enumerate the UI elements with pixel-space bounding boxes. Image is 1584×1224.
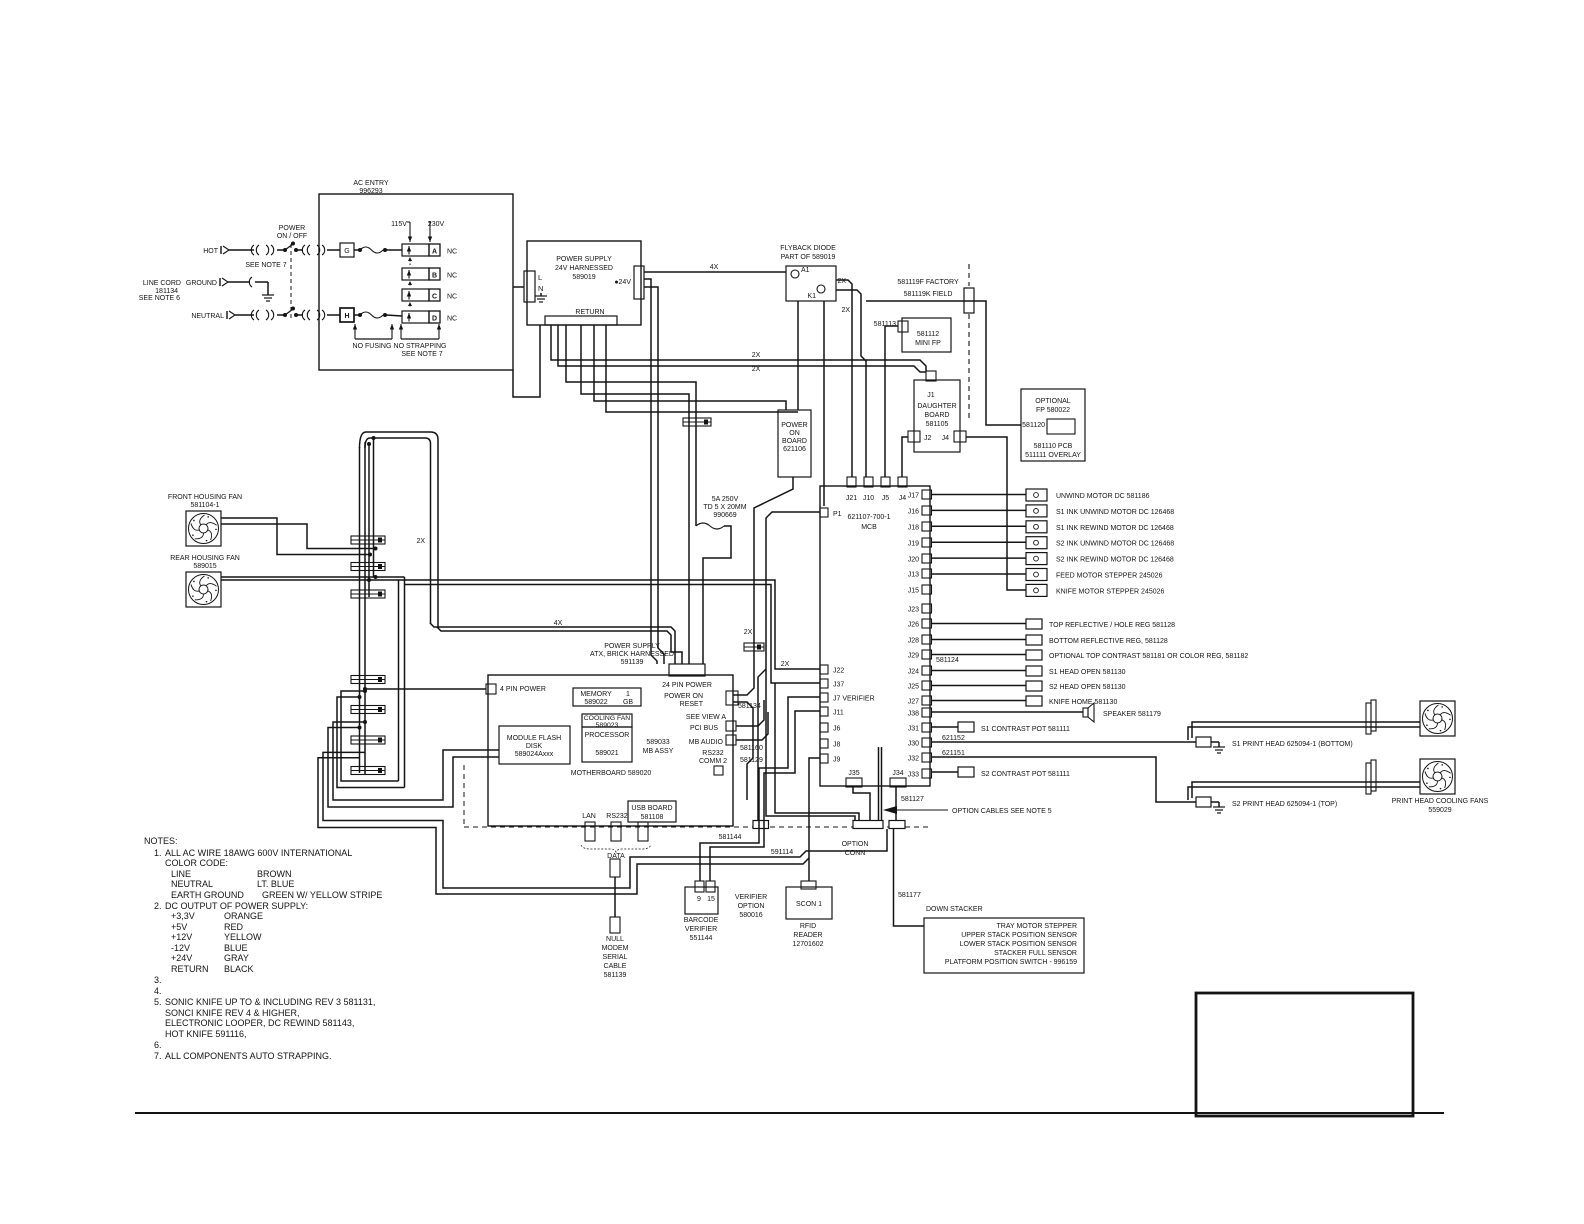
SCON 1 box <box>786 887 832 919</box>
dashed option boundary vertical <box>463 765 465 827</box>
module flash disk 589024Axxx <box>499 726 570 764</box>
fuse element H <box>354 314 359 316</box>
svg-text:J16: J16 <box>908 509 919 516</box>
daughter board 581105 <box>914 380 960 452</box>
connector pair hot-2 <box>302 245 305 255</box>
wire daughter J2 to MCB J4 <box>902 437 908 477</box>
svg-text:PLATFORM POSITION SWITCH - 996: PLATFORM POSITION SWITCH - 996159 <box>945 959 1077 966</box>
svg-text:6.: 6. <box>154 1040 162 1050</box>
svg-text:ON / OFF: ON / OFF <box>277 233 307 240</box>
fuse holder H <box>340 308 354 322</box>
null modem inline connector A <box>610 859 620 877</box>
svg-text:1: 1 <box>626 691 630 698</box>
wire PCI BUS <box>736 700 764 726</box>
svg-text:S1 CONTRAST POT 581111: S1 CONTRAST POT 581111 <box>981 726 1070 733</box>
svg-text:OPTIONAL TOP CONTRAST 581181 O: OPTIONAL TOP CONTRAST 581181 OR COLOR RE… <box>1049 653 1248 660</box>
svg-text:ATX, BRICK HARNESSED: ATX, BRICK HARNESSED <box>590 651 674 658</box>
wire JS1 motor row 1 <box>931 509 1026 511</box>
svg-text:RED: RED <box>224 922 244 932</box>
svg-text:LT. BLUE: LT. BLUE <box>257 879 294 889</box>
wire pair S2 print head to fan <box>1192 782 1420 798</box>
RS232 COMM2 connector <box>714 766 723 775</box>
svg-text:551144: 551144 <box>690 935 713 942</box>
svg-text:NO FUSING: NO FUSING <box>353 343 392 350</box>
wire sensor row <box>931 670 1026 672</box>
svg-text:ORANGE: ORANGE <box>224 911 263 921</box>
svg-text:REAR HOUSING FAN: REAR HOUSING FAN <box>170 555 240 562</box>
svg-text:J5: J5 <box>882 495 890 502</box>
svg-text:J8: J8 <box>833 742 841 749</box>
MCB left connector J9 <box>820 754 828 763</box>
svg-text:7.: 7. <box>154 1051 162 1061</box>
MCB right connector J26 <box>922 619 932 628</box>
flyback terminal K1 <box>817 285 825 293</box>
svg-text:ALL COMPONENTS AUTO STRAPPING.: ALL COMPONENTS AUTO STRAPPING. <box>165 1051 332 1061</box>
svg-text:2X: 2X <box>781 661 790 668</box>
wire daughter J4 to knife motor <box>966 437 1026 590</box>
svg-text:581124: 581124 <box>936 657 959 664</box>
svg-text:2X: 2X <box>416 538 425 545</box>
svg-text:SONIC KNIFE UP TO & INCLUDING: SONIC KNIFE UP TO & INCLUDING REV 3 5811… <box>165 997 375 1007</box>
RS232 connector <box>611 822 621 841</box>
sensor connector: OPTIONAL TOP CONTRAST 581181 OR COLOR REG, 581182 <box>1026 650 1042 660</box>
wire return 6 to power on board <box>606 325 798 412</box>
MCB bottom connector J34 <box>890 778 906 787</box>
svg-text:POWER SUPPLY: POWER SUPPLY <box>604 643 660 650</box>
PSU output connector 24V <box>634 266 644 299</box>
svg-text:581127: 581127 <box>901 796 924 803</box>
svg-text:POWER: POWER <box>279 225 305 232</box>
svg-text:NULL: NULL <box>606 936 624 943</box>
wire to strap D <box>386 315 402 316</box>
svg-text:J25: J25 <box>908 684 919 691</box>
MCB top connector J21 <box>847 477 856 487</box>
MCB bottom connector J35 <box>846 778 862 787</box>
power on board 621106 <box>778 410 811 477</box>
svg-text:J1: J1 <box>927 392 935 399</box>
bundle top turn inner <box>365 438 431 624</box>
null modem cable wire <box>614 877 616 917</box>
wire sensor row <box>931 700 1026 702</box>
svg-text:KNIFE MOTOR STEPPER 245026: KNIFE MOTOR STEPPER 245026 <box>1056 588 1165 595</box>
svg-text:POWER: POWER <box>781 422 807 429</box>
svg-text:2X: 2X <box>841 307 850 314</box>
null modem inline connector B <box>610 917 620 933</box>
svg-text:996293: 996293 <box>359 188 382 195</box>
svg-text:581112: 581112 <box>917 331 939 338</box>
daughter connector J2 <box>908 431 920 442</box>
ground symbol AC <box>267 282 269 295</box>
MCB right connector J29 <box>922 650 932 659</box>
svg-text:FLYBACK DIODE: FLYBACK DIODE <box>780 245 836 252</box>
4 pin power connector <box>486 684 496 694</box>
wire bundle nest to riser J22 <box>341 691 399 781</box>
ferrite on fuse pair <box>683 418 711 426</box>
wire ground lead <box>228 281 250 283</box>
svg-text:J34: J34 <box>892 770 903 777</box>
wire K1 branch to 581120 <box>866 301 1021 425</box>
svg-text:581129: 581129 <box>740 757 763 764</box>
MCB left connector J6 <box>820 723 828 732</box>
svg-text:OPTION CABLES SEE NOTE 5: OPTION CABLES SEE NOTE 5 <box>952 808 1052 815</box>
svg-text:HOT KNIFE 591116,: HOT KNIFE 591116, <box>165 1029 247 1039</box>
voltage strap row C <box>402 289 429 301</box>
svg-text:SEE NOTE 7: SEE NOTE 7 <box>401 351 442 358</box>
S2 contrast pot 581111 <box>958 767 974 777</box>
mini FP connector <box>898 321 908 332</box>
wire bundle branch down to 591114 run <box>323 752 887 888</box>
wire mini FP to J5 <box>885 326 898 477</box>
svg-text:S2 CONTRAST POT 581111: S2 CONTRAST POT 581111 <box>981 771 1070 778</box>
switch contact neutral <box>283 313 287 317</box>
MB AUDIO connector <box>726 735 736 745</box>
MCB right connector J23 <box>922 604 932 613</box>
MCB left connector J7 <box>820 693 828 702</box>
MCB right connector J17 <box>922 490 932 499</box>
ferrite on bundle <box>351 706 385 714</box>
ferrite on bundle <box>351 536 385 544</box>
svg-text:MODULE FLASH: MODULE FLASH <box>507 735 561 742</box>
MCB left connector J22 <box>820 665 828 674</box>
svg-text:4.: 4. <box>154 986 162 996</box>
option flat connector J34 <box>889 821 905 829</box>
svg-text:581108: 581108 <box>641 814 664 821</box>
wire return 1 to J1 2X <box>551 325 926 371</box>
S1 print head ground <box>1211 741 1219 743</box>
svg-text:S1 INK REWIND MOTOR DC 126468: S1 INK REWIND MOTOR DC 126468 <box>1056 525 1174 532</box>
svg-text:PCI BUS: PCI BUS <box>690 725 718 732</box>
svg-text:NEUTRAL: NEUTRAL <box>171 879 213 889</box>
option flat connector J35 <box>853 821 883 829</box>
svg-text:TD 5 X 20MM: TD 5 X 20MM <box>703 504 746 511</box>
svg-text:581120: 581120 <box>1022 422 1045 429</box>
riser J37 vertical and branch <box>404 577 406 788</box>
connector pair neutral-2 <box>302 310 305 320</box>
wire pair into option connector <box>878 747 880 820</box>
wire J34 to option connector <box>895 787 897 820</box>
svg-text:TOP REFLECTIVE / HOLE REG 581: TOP REFLECTIVE / HOLE REG 581128 <box>1049 622 1175 629</box>
svg-text:J2: J2 <box>924 435 932 442</box>
svg-text:4 PIN POWER: 4 PIN POWER <box>500 686 546 693</box>
MCB left connector J11 <box>820 707 828 716</box>
svg-text:HOT: HOT <box>203 248 219 255</box>
svg-text:J30: J30 <box>908 741 919 748</box>
sensor connector: BOTTOM REFLECTIVE REG, 581128 <box>1026 635 1042 645</box>
svg-text:COOLING FAN: COOLING FAN <box>584 715 631 722</box>
ferrite on bundle <box>351 563 385 571</box>
motor connector: S1 INK REWIND MOTOR DC 126468 <box>1026 521 1047 533</box>
svg-text:SEE NOTE 6: SEE NOTE 6 <box>139 295 180 302</box>
svg-text:BOTTOM REFLECTIVE REG, 581128: BOTTOM REFLECTIVE REG, 581128 <box>1049 638 1168 645</box>
svg-text:J17: J17 <box>908 493 919 500</box>
svg-text:ELECTRONIC LOOPER, DC REWIND 5: ELECTRONIC LOOPER, DC REWIND 581143, <box>165 1018 354 1028</box>
svg-text:591114: 591114 <box>771 849 793 856</box>
svg-text:A: A <box>432 249 437 256</box>
svg-text:J15: J15 <box>908 588 919 595</box>
svg-text:P1: P1 <box>833 511 842 518</box>
riser J22 vertical and branch <box>399 580 821 781</box>
svg-text:FRONT HOUSING FAN: FRONT HOUSING FAN <box>168 494 242 501</box>
svg-text:589019: 589019 <box>572 274 595 281</box>
memory 589022 <box>573 688 641 706</box>
wire hot to fuse G <box>327 249 340 251</box>
wire flyback to power on board <box>797 301 799 410</box>
svg-text:J32: J32 <box>908 756 919 763</box>
rear housing fan <box>186 572 221 607</box>
MCB right connector J27 <box>922 696 932 705</box>
wire JS2 motor row 4 <box>931 557 1026 559</box>
MCB right connector J20 <box>922 554 932 563</box>
fuse element G <box>354 249 359 251</box>
wire J11 to barcode pin15 <box>710 711 820 881</box>
ferrite on bundle <box>351 767 385 775</box>
wire P1 drop from flyback <box>823 301 825 506</box>
connector pair hot-1 <box>251 245 254 255</box>
wire J7 verifier to barcode pin9 <box>700 697 820 881</box>
main control board MCB 621107-700-1 <box>820 486 930 786</box>
voltage strap row D <box>402 311 429 323</box>
svg-text:RS232: RS232 <box>702 750 724 757</box>
svg-text:NO STRAPPING: NO STRAPPING <box>394 343 447 350</box>
component 581119 sleeve <box>964 288 974 313</box>
ferrite on S1 fan wires <box>1366 703 1371 734</box>
DATA brace <box>581 845 651 852</box>
barcode verifier 551144 <box>685 887 718 914</box>
USB connector <box>638 822 648 841</box>
svg-text:●24V: ●24V <box>614 279 631 286</box>
svg-text:COLOR CODE:: COLOR CODE: <box>165 858 228 868</box>
SCON top connector <box>801 881 816 889</box>
svg-text:LINE CORD: LINE CORD <box>143 280 181 287</box>
MCB right connector J18 <box>922 522 932 531</box>
svg-text:J38: J38 <box>908 711 919 718</box>
MCB right connector J32 <box>922 753 932 762</box>
MCB right connector J28 <box>922 635 932 644</box>
wire AC box bottom to PSU return path <box>513 325 540 397</box>
svg-text:581119F FACTORY: 581119F FACTORY <box>897 279 959 286</box>
barcode pin 15 <box>706 881 715 892</box>
svg-text:EARTH GROUND: EARTH GROUND <box>171 890 244 900</box>
PSU input connector <box>524 271 535 302</box>
MCB top connector J5 <box>881 477 890 487</box>
voltage strap row B <box>402 268 429 280</box>
svg-text:5.: 5. <box>154 997 162 1007</box>
flyback terminal A1 <box>791 270 799 278</box>
svg-text:2X: 2X <box>752 366 761 373</box>
bundle top turn outer <box>360 432 439 628</box>
svg-text:559029: 559029 <box>1428 807 1451 814</box>
svg-text:RFID: RFID <box>800 923 816 930</box>
svg-text:GB: GB <box>623 699 633 706</box>
svg-text:621152: 621152 <box>942 735 965 742</box>
motor connector: S2 INK REWIND MOTOR DC 126468 <box>1026 553 1047 565</box>
svg-text:511111 OVERLAY: 511111 OVERLAY <box>1025 452 1081 459</box>
motor connector: KNIFE MOTOR STEPPER 245026 <box>1026 584 1047 596</box>
svg-text:589022: 589022 <box>584 699 607 706</box>
svg-text:KNIFE HOME 581130: KNIFE HOME 581130 <box>1049 699 1117 706</box>
ferrite on S2 fan wires <box>1366 763 1371 794</box>
motor connector: UNWIND MOTOR DC 581186 <box>1026 489 1047 501</box>
dashed option boundary horizontal <box>464 826 928 828</box>
processor 589021 <box>582 727 632 762</box>
svg-text:J9: J9 <box>833 757 841 764</box>
svg-text:NOTES:: NOTES: <box>144 836 178 846</box>
MCB top connector J10 <box>864 477 873 487</box>
svg-text:581105: 581105 <box>926 421 949 428</box>
svg-text:581134: 581134 <box>738 703 761 710</box>
svg-text:S1 PRINT HEAD 625094-1 (BOTTO: S1 PRINT HEAD 625094-1 (BOTTOM) <box>1232 741 1353 748</box>
wire front fan A to bundle <box>221 518 370 555</box>
svg-text:ON: ON <box>789 430 800 437</box>
svg-text:TRAY MOTOR STEPPER: TRAY MOTOR STEPPER <box>996 923 1077 930</box>
voltage strap row A <box>402 244 429 256</box>
wire sensor row <box>931 685 1026 687</box>
svg-text:LOWER STACK POSITION SENSOR: LOWER STACK POSITION SENSOR <box>960 941 1077 948</box>
connector pair neutral-1 <box>251 310 254 320</box>
svg-text:J11: J11 <box>833 710 844 717</box>
svg-text:BROWN: BROWN <box>257 869 292 879</box>
bottom rule line <box>135 1112 1444 1114</box>
svg-text:SEE VIEW A: SEE VIEW A <box>686 714 726 721</box>
svg-text:NC: NC <box>447 273 457 280</box>
S2 print head connector <box>1196 797 1211 807</box>
wire return 3 fuse feed <box>566 325 696 520</box>
svg-text:J4: J4 <box>942 435 950 442</box>
svg-text:591139: 591139 <box>621 659 644 666</box>
svg-text:+12V: +12V <box>171 932 192 942</box>
svg-text:DOWN STACKER: DOWN STACKER <box>926 906 983 913</box>
svg-text:581160: 581160 <box>740 745 763 752</box>
AC entry enclosure box 996293 <box>319 194 513 370</box>
svg-text:J21: J21 <box>846 495 857 502</box>
svg-text:STACKER FULL SENSOR: STACKER FULL SENSOR <box>994 950 1077 957</box>
daughter connector J4 <box>954 431 966 442</box>
svg-text:SONCI KNIFE REV 4 & HIGHER,: SONCI KNIFE REV 4 & HIGHER, <box>165 1008 300 1018</box>
svg-text:OPTION: OPTION <box>842 841 869 848</box>
svg-text:L: L <box>538 273 542 282</box>
svg-text:RS232: RS232 <box>606 813 628 820</box>
fuse holder G <box>340 243 354 257</box>
svg-text:S2 PRINT HEAD 625094-1 (TOP): S2 PRINT HEAD 625094-1 (TOP) <box>1232 801 1337 808</box>
wire sensor row <box>931 654 1026 656</box>
power supply 24V harnessed 589019 <box>527 241 641 325</box>
power on reset connector <box>726 691 738 705</box>
svg-text:LINE: LINE <box>171 869 191 879</box>
svg-text:J23: J23 <box>908 607 919 614</box>
wire sensor row <box>931 623 1026 625</box>
sensor connector: KNIFE HOME 581130 <box>1026 696 1042 706</box>
svg-text:MODEM: MODEM <box>602 945 629 952</box>
wire to strap A <box>386 249 402 251</box>
PCI BUS connector <box>726 721 736 731</box>
S2 print head ground <box>1211 801 1219 803</box>
svg-text:-12V: -12V <box>171 943 190 953</box>
svg-text:VERIFIER: VERIFIER <box>735 894 767 901</box>
svg-text:589024Axxx: 589024Axxx <box>515 751 554 758</box>
title block box <box>1196 993 1413 1116</box>
wire bundle nest to riser J37 <box>337 697 405 788</box>
svg-text:+3,3V: +3,3V <box>171 911 195 921</box>
wire bundle to flash disk B <box>328 728 499 808</box>
svg-text:J19: J19 <box>908 541 919 548</box>
svg-text:1.: 1. <box>154 848 162 858</box>
svg-text:581104-1: 581104-1 <box>190 502 219 509</box>
24 pin power connector <box>669 664 705 676</box>
sensor connector: S1 HEAD OPEN 581130 <box>1026 666 1042 676</box>
wire sensor row <box>931 639 1026 641</box>
svg-text:24 PIN POWER: 24 PIN POWER <box>662 682 712 689</box>
MCB right connector J30 <box>922 738 932 747</box>
svg-text:4X: 4X <box>710 264 719 271</box>
wire return 4 <box>581 325 689 664</box>
wire bundle vertical 1 <box>359 447 361 773</box>
svg-text:S1 HEAD OPEN 581130: S1 HEAD OPEN 581130 <box>1049 669 1126 676</box>
optional FP board 580022 <box>1021 389 1085 461</box>
wire J35 to option connector <box>853 787 870 820</box>
S1 contrast pot 581111 <box>958 722 974 732</box>
wire rear fan A to riser <box>221 576 405 578</box>
svg-text:990669: 990669 <box>713 512 736 519</box>
optional FP connector <box>1047 419 1075 434</box>
wire neutral to fuse H <box>327 314 340 316</box>
PSU return connector strip <box>545 316 617 325</box>
svg-text:BARCODE: BARCODE <box>684 917 719 924</box>
svg-text:J33: J33 <box>908 772 919 779</box>
svg-text:NEUTRAL: NEUTRAL <box>191 313 224 320</box>
svg-text:AC ENTRY: AC ENTRY <box>353 180 389 187</box>
MCB left connector J8 <box>820 739 828 748</box>
svg-text:S2 INK REWIND MOTOR DC 126468: S2 INK REWIND MOTOR DC 126468 <box>1056 557 1174 564</box>
USB board 581108 <box>628 801 676 822</box>
MCB right connector J13 <box>922 569 932 578</box>
svg-text:581144: 581144 <box>719 834 742 841</box>
svg-text:PROCESSOR: PROCESSOR <box>585 732 630 739</box>
svg-text:2.: 2. <box>154 901 162 911</box>
svg-text:NC: NC <box>447 316 457 323</box>
wire rear fan B to riser <box>221 579 399 581</box>
wire POB to power on reset <box>733 477 793 695</box>
svg-text:NC: NC <box>447 294 457 301</box>
svg-text:J7 VERIFIER: J7 VERIFIER <box>833 696 875 703</box>
LAN connector <box>585 822 595 841</box>
option flat connector 581144 <box>753 821 769 829</box>
svg-text:GREEN W/ YELLOW STRIPE: GREEN W/ YELLOW STRIPE <box>262 890 382 900</box>
svg-text:2X: 2X <box>744 629 753 636</box>
svg-text:24V HARNESSED: 24V HARNESSED <box>555 265 613 272</box>
svg-text:FP 580022: FP 580022 <box>1036 407 1070 414</box>
svg-text:9: 9 <box>697 896 701 903</box>
svg-text:G: G <box>344 248 349 255</box>
wire J31 to S1 contrast pot <box>931 726 958 728</box>
svg-text:589033: 589033 <box>646 739 669 746</box>
strap link dashed arrow <box>409 283 411 286</box>
svg-text:S2 INK UNWIND MOTOR DC 126468: S2 INK UNWIND MOTOR DC 126468 <box>1056 541 1174 548</box>
wire 4 pin power to bundle <box>365 688 486 690</box>
wire PSU out to 24pin a <box>644 279 657 664</box>
svg-text:UNWIND MOTOR DC 581186: UNWIND MOTOR DC 581186 <box>1056 493 1150 500</box>
svg-text:4X: 4X <box>554 620 563 627</box>
MCB right connector J24 <box>922 666 932 675</box>
svg-text:FEED MOTOR STEPPER 245026: FEED MOTOR STEPPER 245026 <box>1056 573 1163 580</box>
svg-text:BLACK: BLACK <box>224 964 254 974</box>
sensor connector: S2 HEAD OPEN 581130 <box>1026 681 1042 691</box>
svg-text:N: N <box>538 284 543 293</box>
svg-text:15: 15 <box>707 896 715 903</box>
motor connector: S2 INK UNWIND MOTOR DC 126468 <box>1026 537 1047 549</box>
svg-text:589015: 589015 <box>193 563 216 570</box>
svg-text:GRAY: GRAY <box>224 953 249 963</box>
wire J22 drop <box>758 669 766 821</box>
